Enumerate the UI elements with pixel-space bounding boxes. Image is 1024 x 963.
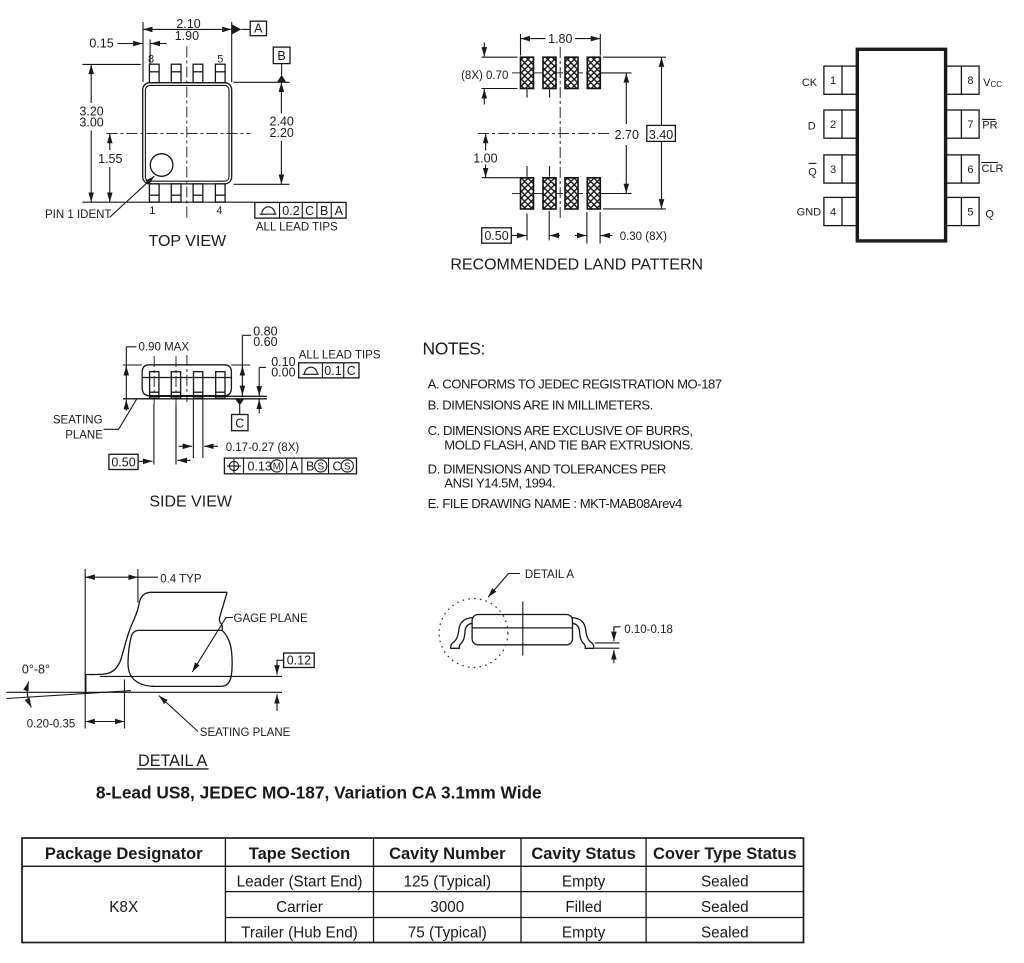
svg-text:Cover Type Status: Cover Type Status: [653, 845, 797, 863]
package body outer outline: [143, 83, 232, 184]
seating plane leader: [104, 399, 137, 429]
land pad 5: [587, 57, 600, 88]
svg-text:5: 5: [967, 207, 973, 219]
svg-text:Sealed: Sealed: [701, 899, 749, 916]
svg-text:6: 6: [967, 164, 973, 176]
svg-text:0.1: 0.1: [324, 364, 341, 378]
dim 1.00 extension line: [482, 177, 520, 179]
svg-text:Tape Section: Tape Section: [249, 845, 350, 863]
land pad 8: [521, 57, 534, 88]
dim 1.55 dimension line: [109, 134, 111, 150]
svg-text:Package Designator: Package Designator: [45, 845, 203, 863]
lower row extension to 2.70: [600, 193, 632, 195]
svg-text:0.10-0.18: 0.10-0.18: [624, 624, 673, 636]
svg-text:8: 8: [148, 54, 154, 66]
svg-text:0.50: 0.50: [111, 456, 135, 470]
row separators: [225, 891, 803, 893]
svg-text:0.2: 0.2: [282, 204, 299, 218]
land pad 2: [543, 178, 556, 209]
lead 1 section: [150, 372, 159, 398]
lead 3 width extension lines: [192, 400, 194, 459]
lead pin6: [193, 64, 203, 83]
svg-text:PR: PR: [982, 120, 997, 132]
svg-text:Empty: Empty: [562, 873, 606, 890]
svg-text:PIN 1 IDENT: PIN 1 IDENT: [45, 209, 111, 221]
datum C triangle: [235, 399, 244, 406]
svg-text:0.15: 0.15: [89, 37, 113, 51]
svg-text:D: D: [808, 120, 816, 132]
svg-text:ALL LEAD TIPS: ALL LEAD TIPS: [299, 350, 381, 362]
centerline: [522, 602, 524, 656]
svg-text:A. CONFORMS TO JEDEC REGISTRAT: A. CONFORMS TO JEDEC REGISTRATION MO-187: [428, 376, 722, 391]
svg-text:C: C: [235, 416, 244, 430]
svg-text:Filled: Filled: [565, 899, 602, 916]
pin 3 box: [824, 155, 858, 183]
svg-text:1.00: 1.00: [473, 151, 497, 165]
svg-text:C: C: [333, 459, 342, 473]
svg-text:2.20: 2.20: [270, 126, 294, 140]
svg-text:3000: 3000: [430, 899, 464, 916]
svg-text:0.4 TYP: 0.4 TYP: [160, 573, 202, 585]
seating plane line: [6, 691, 282, 693]
body middle line: [140, 629, 222, 631]
dim (8X) 0.70 arrows: [483, 43, 485, 57]
seating plane line: [123, 398, 267, 400]
lead 2 centerline: [175, 356, 177, 404]
svg-text:C. DIMENSIONS ARE EXCLUSIVE OF: C. DIMENSIONS ARE EXCLUSIVE OF BURRS,: [428, 423, 693, 438]
dim 2.10/1.90 extension lines: [142, 22, 144, 82]
dim 1.80 dimension line: [521, 38, 546, 40]
horizontal centerline: [107, 133, 251, 135]
lead pin5: [215, 64, 225, 83]
svg-text:A: A: [290, 459, 299, 473]
land pad 7: [543, 57, 556, 88]
datum A leader: [241, 28, 250, 30]
svg-text:3: 3: [830, 164, 836, 176]
svg-text:Empty: Empty: [562, 924, 606, 941]
lead 1 centerline: [153, 356, 155, 404]
dim 0.90 MAX elbow: [126, 346, 136, 348]
svg-text:C: C: [305, 204, 314, 218]
svg-text:Q: Q: [985, 209, 994, 221]
svg-text:ALL LEAD TIPS: ALL LEAD TIPS: [256, 221, 338, 233]
body texts: [109, 873, 748, 941]
lead pin3: [193, 184, 203, 202]
middle centerline: [478, 133, 612, 135]
pin 1 ident circle: [150, 154, 173, 177]
svg-text:NOTES:: NOTES:: [423, 338, 485, 358]
left gull-wing lead: [451, 618, 473, 649]
svg-text:8-Lead US8, JEDEC MO-187, Vari: 8-Lead US8, JEDEC MO-187, Variation CA 3…: [96, 783, 542, 803]
svg-text:Carrier: Carrier: [276, 899, 323, 916]
angled 0-8 line: [6, 691, 131, 699]
dim 0.12 bracket arrows: [277, 660, 284, 665]
dim 3.20/3.00 extension lines: [82, 63, 140, 65]
svg-text:Sealed: Sealed: [701, 924, 749, 941]
pitch arrows: [550, 235, 560, 237]
svg-text:K8X: K8X: [109, 899, 138, 916]
seating plane leader: [159, 696, 198, 732]
dim 0.50 leader arrow: [511, 235, 526, 237]
dim 0.90 MAX line: [125, 347, 127, 399]
svg-text:S: S: [344, 462, 351, 473]
lead pin4: [215, 184, 225, 202]
pin 4 box: [824, 197, 858, 225]
svg-text:Cavity Status: Cavity Status: [531, 845, 636, 863]
svg-text:B: B: [277, 49, 285, 63]
svg-text:0.50: 0.50: [484, 229, 508, 243]
body centerline: [186, 355, 188, 402]
dim 1.80 extension lines: [520, 34, 522, 56]
datum A arrow triangle: [232, 24, 241, 34]
svg-text:Trailer (Hub End): Trailer (Hub End): [241, 924, 358, 941]
svg-text:0.20-0.35: 0.20-0.35: [27, 718, 76, 730]
top extension line left: [123, 364, 142, 366]
svg-text:2: 2: [830, 119, 836, 131]
dim 2.40/2.20 extension lines: [234, 81, 290, 83]
svg-text:1: 1: [830, 75, 836, 87]
svg-text:SEATING PLANE: SEATING PLANE: [200, 727, 291, 739]
upper pad row centerline: [512, 72, 600, 74]
svg-text:3.00: 3.00: [79, 115, 103, 129]
vertical centerline: [559, 47, 561, 219]
detail leader: [488, 574, 520, 598]
dim 0.50 leader arrow: [138, 460, 152, 462]
dim 0.80/0.60 arrows: [241, 366, 243, 374]
lower pad row centerline: [512, 193, 600, 195]
pin 6 box: [946, 155, 980, 183]
land pad 1: [521, 178, 534, 209]
dim 0.4 TYP line: [85, 576, 137, 578]
dim (8X) 0.70 extension lines: [482, 56, 518, 58]
dim 3.20/3.00 dimension line: [90, 65, 92, 103]
angle arc arrows: [27, 682, 31, 708]
lead 4 section: [216, 372, 225, 398]
feature control frame 0.2 C B A: [255, 202, 346, 218]
body lower outline: [152, 630, 232, 686]
table outer border: [22, 838, 804, 943]
svg-text:DETAIL A: DETAIL A: [525, 569, 575, 581]
svg-text:3.40: 3.40: [649, 128, 673, 142]
svg-text:2.70: 2.70: [615, 128, 639, 142]
svg-text:CK: CK: [802, 77, 818, 89]
pin 5 box: [946, 197, 980, 225]
pad centre stubs: [526, 90, 528, 98]
svg-text:B. DIMENSIONS ARE IN MILLIMETE: B. DIMENSIONS ARE IN MILLIMETERS.: [428, 397, 653, 412]
feature control frame 0.1 C: [299, 363, 359, 378]
svg-text:Sealed: Sealed: [701, 873, 749, 890]
land pad 6: [565, 57, 578, 88]
lead tip plane line: [150, 395, 267, 397]
dim 0.17-0.27 arrows: [179, 445, 193, 447]
lead 2 section: [171, 372, 180, 398]
dim 3.40 extension lines: [603, 56, 666, 58]
svg-text:A: A: [335, 204, 344, 218]
dim 0.50 box: [482, 228, 512, 243]
land pad 3: [565, 178, 578, 209]
svg-text:0.60: 0.60: [253, 335, 277, 349]
svg-text:B: B: [320, 204, 328, 218]
svg-text:D. DIMENSIONS AND TOLERANCES P: D. DIMENSIONS AND TOLERANCES PER: [428, 461, 666, 476]
svg-text:TOP VIEW: TOP VIEW: [148, 233, 227, 250]
body break edge upper right: [219, 592, 227, 630]
svg-text:1.55: 1.55: [98, 152, 122, 166]
svg-text:0.13: 0.13: [248, 459, 272, 473]
svg-text:RECOMMENDED LAND PATTERN: RECOMMENDED LAND PATTERN: [450, 256, 703, 273]
lead pin1: [149, 184, 159, 202]
extension line heel: [124, 680, 126, 729]
datum B box: [273, 47, 290, 64]
datum C leader: [239, 405, 241, 415]
inner lead curve: [128, 630, 153, 686]
svg-text:GND: GND: [797, 206, 822, 218]
datum B leader: [281, 64, 283, 75]
datum A box: [250, 21, 266, 36]
pin 1 box: [824, 66, 858, 94]
IC body: [857, 49, 945, 241]
pin 2 box: [824, 110, 858, 138]
dim 0.15 extension line: [149, 40, 151, 64]
svg-text:DETAIL A: DETAIL A: [138, 752, 207, 770]
dim 3.40 dimension line: [661, 57, 663, 125]
svg-text:Cavity Number: Cavity Number: [389, 845, 506, 863]
package body inner outline: [145, 85, 229, 181]
svg-text:0.17-0.27 (8X): 0.17-0.27 (8X): [226, 442, 300, 454]
dim 1.00 dimension line: [485, 134, 487, 151]
extension line gage point: [137, 569, 139, 603]
dim 2.10/1.90 dimension line: [143, 28, 232, 30]
pitch arrow: [177, 459, 190, 461]
dim 0.50 box: [109, 454, 138, 469]
svg-text:ANSI Y14.5M, 1994.: ANSI Y14.5M, 1994.: [444, 476, 555, 491]
svg-text:1.90: 1.90: [175, 29, 199, 43]
svg-text:Leader (Start End): Leader (Start End): [237, 873, 363, 890]
gage plane leader: [192, 618, 233, 673]
svg-text:0.90 MAX: 0.90 MAX: [139, 341, 190, 353]
dim 2.40/2.20 dimension line: [280, 83, 282, 114]
pin 7 box: [946, 110, 980, 138]
lead pin7: [171, 64, 181, 83]
svg-text:1: 1: [149, 205, 155, 217]
bottom extension lines for pitch dims: [526, 214, 528, 241]
svg-text:M: M: [273, 462, 281, 473]
pin 1 ident leader: [110, 176, 155, 217]
vertical centerline: [186, 47, 188, 220]
dim 0.15 arrows: [118, 43, 143, 45]
svg-text:C: C: [347, 364, 356, 378]
dim 0.30 arrow: [601, 235, 613, 237]
svg-text:7: 7: [967, 119, 973, 131]
package body profile: [472, 615, 572, 645]
svg-text:4: 4: [216, 205, 222, 217]
svg-text:E. FILE DRAWING NAME : MKT-MAB: E. FILE DRAWING NAME : MKT-MAB08Arev4: [428, 496, 682, 511]
svg-text:1.80: 1.80: [548, 32, 572, 46]
dim 3.40 box: [647, 125, 676, 141]
body top and outer lead curve: [86, 592, 227, 692]
svg-text:Q: Q: [808, 166, 817, 178]
dim 0.80/0.60 elbow: [242, 334, 251, 336]
body outline: [142, 365, 231, 396]
body parting line: [472, 627, 572, 629]
header texts: [45, 845, 797, 863]
datum B triangle: [277, 75, 286, 83]
svg-text:(8X) 0.70: (8X) 0.70: [461, 70, 508, 82]
dim 2.70 dimension line: [625, 73, 627, 124]
top extension line right: [231, 364, 250, 366]
lead pin8: [149, 64, 159, 83]
svg-text:4: 4: [830, 207, 836, 219]
position feature control frame: [224, 458, 356, 474]
land pad 4: [587, 178, 600, 209]
svg-text:CLR: CLR: [982, 163, 1004, 175]
upper row extension to 2.70: [600, 72, 632, 74]
lead pitch extension lines: [153, 404, 155, 465]
svg-text:SEATING: SEATING: [53, 415, 103, 427]
body parting line: [142, 377, 231, 379]
gage plane line: [100, 675, 282, 677]
datum C box: [232, 415, 248, 431]
svg-text:MOLD FLASH, AND TIE BAR EXTRUS: MOLD FLASH, AND TIE BAR EXTRUSIONS.: [444, 438, 693, 453]
lead 3 section: [194, 372, 203, 398]
detail circle: [439, 599, 508, 668]
dim 0.10-0.18 bracket: [614, 627, 621, 630]
svg-text:0.12: 0.12: [287, 654, 311, 668]
svg-text:SIDE VIEW: SIDE VIEW: [149, 494, 233, 511]
svg-text:5: 5: [217, 54, 223, 66]
svg-text:8: 8: [967, 75, 973, 87]
right gull-wing lead: [572, 618, 594, 649]
svg-text:B: B: [306, 459, 314, 473]
svg-text:S: S: [318, 462, 325, 473]
svg-text:0°-8°: 0°-8°: [22, 663, 50, 677]
column lines: [224, 838, 226, 943]
extension line toe: [84, 569, 86, 729]
svg-text:A: A: [254, 22, 263, 36]
svg-text:PLANE: PLANE: [65, 429, 103, 441]
svg-text:125 (Typical): 125 (Typical): [404, 873, 492, 890]
lead pin2: [171, 184, 181, 202]
svg-text:0.00: 0.00: [271, 365, 295, 379]
svg-text:75 (Typical): 75 (Typical): [408, 924, 487, 941]
header separator: [22, 865, 804, 867]
standoff reference lines: [595, 642, 620, 644]
svg-text:0.30 (8X): 0.30 (8X): [620, 231, 667, 243]
dim 0.10/0.00 elbow: [259, 366, 266, 368]
svg-text:GAGE PLANE: GAGE PLANE: [234, 613, 308, 625]
dim 0.12 box: [284, 653, 315, 668]
pin 8 box: [946, 66, 980, 94]
